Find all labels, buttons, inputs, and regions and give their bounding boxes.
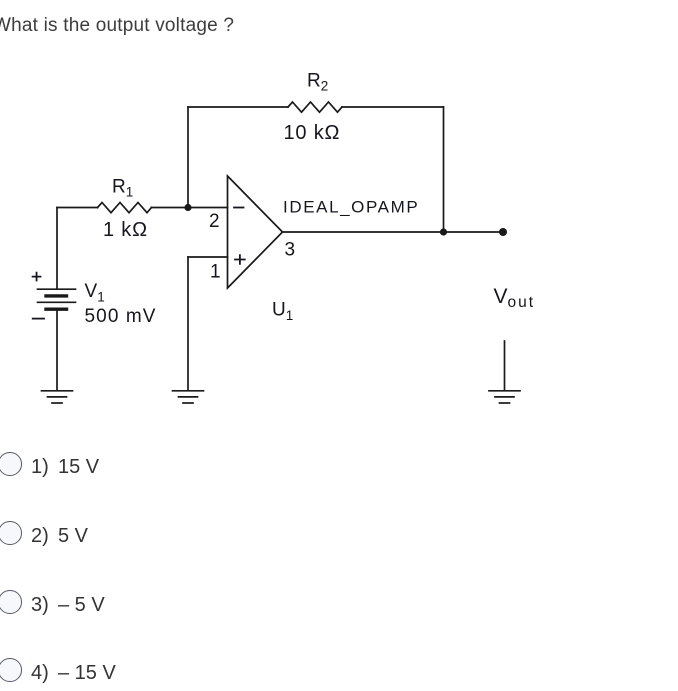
node: junction at inverting input [184,204,191,211]
battery V1 top lead [56,208,58,290]
op-amp U1 triangle [228,176,283,288]
ground: under battery V1 [42,391,73,403]
radio option 4 [0,658,22,682]
wire: op-amp output [283,231,504,233]
svg-text:Vout: Vout [494,285,536,311]
wire: top feedback left segment [188,106,288,108]
wire: top feedback right segment [342,106,444,108]
svg-text:1 kΩ: 1 kΩ [103,219,148,241]
ground: Vout reference [489,391,520,403]
question title [0,15,234,37]
battery minus sign [33,318,44,320]
resistor R2 [288,102,342,112]
op-amp minus sign [234,207,244,209]
battery plus sign [33,273,41,281]
resistor R1 [98,203,152,213]
wire: non-inverting input horizontal [188,256,228,258]
svg-text:R2: R2 [307,71,328,94]
wire: R1 to op-amp inverting input [152,207,228,209]
svg-text:2: 2 [209,211,220,232]
node: output junction [440,228,447,235]
op-amp plus sign [235,255,245,264]
wire: feedback left vertical [187,107,189,208]
svg-text:V1: V1 [85,281,105,305]
svg-text:500 mV: 500 mV [85,306,157,327]
wire: Vout ground lead [504,341,506,391]
wire: V1 to R1 [57,207,98,209]
radio option 3 [0,590,22,614]
svg-text:U1: U1 [272,300,293,324]
node: Vout terminal [499,228,507,236]
svg-text:1: 1 [210,262,221,283]
battery V1 bottom lead [56,311,58,391]
svg-text:IDEAL_OPAMP: IDEAL_OPAMP [283,198,419,217]
wire: non-inverting input down to ground [187,257,189,391]
radio option 2 [0,521,22,545]
svg-text:10 kΩ: 10 kΩ [284,122,341,144]
radio option 1 [0,452,22,476]
wire: feedback right vertical [443,107,445,232]
svg-text:R1: R1 [112,177,133,200]
ground: under op-amp pin 1 [173,391,204,403]
battery V1 plates [38,289,76,309]
svg-text:3: 3 [285,240,296,261]
